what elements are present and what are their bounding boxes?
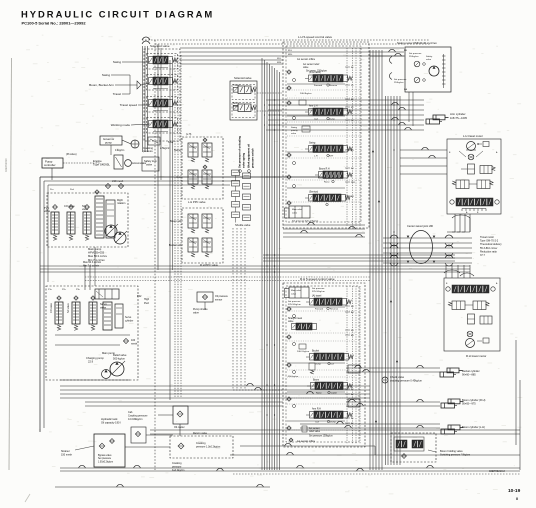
- svg-text:valve spring: valve spring: [242, 152, 246, 168]
- svg-text:Type GM-70-2-2: Type GM-70-2-2: [480, 240, 499, 243]
- svg-text:Jet sensor relief: Jet sensor relief: [303, 63, 320, 66]
- svg-text:NC valve: NC valve: [67, 303, 70, 313]
- svg-text:210kg/cm: 210kg/cm: [409, 56, 419, 58]
- svg-text:Raise: Raise: [316, 393, 322, 395]
- svg-text:240-3 kg/cm: 240-3 kg/cm: [297, 351, 309, 353]
- svg-text:MDL: MDL: [277, 62, 282, 64]
- svg-text:valve: valve: [303, 67, 309, 69]
- svg-text:115×75—1005: 115×75—1005: [450, 116, 467, 120]
- svg-text:CO valve: CO valve: [50, 302, 53, 313]
- svg-text:R.H 5-speed control valve: R.H 5-speed control valve: [300, 277, 335, 281]
- svg-text:mesh: mesh: [131, 342, 138, 345]
- svg-text:Solenoid valve: Solenoid valve: [150, 44, 170, 48]
- svg-text:Straight travel: Straight travel: [288, 317, 303, 320]
- svg-text:L.H PPC valve: L.H PPC valve: [188, 200, 206, 204]
- svg-text:Check valve: Check valve: [390, 375, 405, 379]
- svg-text:Forward: Forward: [314, 84, 323, 87]
- svg-text:02EP02030: 02EP02030: [4, 158, 8, 172]
- svg-text:R.H travel motor: R.H travel motor: [466, 354, 486, 358]
- svg-text:1.05±0.2kg/cm: 1.05±0.2kg/cm: [98, 461, 113, 463]
- svg-text:37.7: 37.7: [480, 254, 485, 257]
- svg-text:Swing: Swing: [113, 60, 122, 64]
- svg-text:(Service): (Service): [309, 191, 318, 194]
- svg-text:Swing: Swing: [102, 73, 111, 77]
- svg-text:pump: pump: [105, 142, 112, 145]
- svg-text:Boom cylinder (R.H): Boom cylinder (R.H): [462, 398, 485, 402]
- svg-text:Servo: Servo: [100, 302, 107, 306]
- svg-text:Set pressure 150kg/cm: Set pressure 150kg/cm: [309, 435, 333, 438]
- svg-text:Bucket: Bucket: [312, 350, 319, 353]
- svg-text:Safety lock: Safety lock: [144, 159, 157, 163]
- svg-text:Arm cylinder: Arm cylinder: [450, 112, 466, 116]
- svg-text:Relief valve: Relief valve: [113, 353, 127, 357]
- svg-text:Set pressure: Set pressure: [409, 52, 422, 55]
- svg-text:valve: valve: [291, 293, 297, 295]
- svg-text:Boom: Boom: [233, 103, 239, 105]
- svg-text:valve: valve: [288, 321, 294, 323]
- svg-text:Travel speed: Travel speed: [120, 103, 138, 107]
- svg-text:Dump: Dump: [330, 422, 337, 424]
- svg-text:Jet sensor orifice: Jet sensor orifice: [297, 58, 316, 61]
- svg-text:0-0.049kg/cm: 0-0.049kg/cm: [128, 418, 142, 421]
- svg-text:500 kg/cm: 500 kg/cm: [113, 357, 125, 361]
- svg-text:Min 7.1 cc/min: Min 7.1 cc/min: [83, 264, 100, 267]
- svg-text:325-10kg/cm: 325-10kg/cm: [312, 291, 325, 293]
- svg-text:Boom, Bucket Arm: Boom, Bucket Arm: [89, 83, 114, 87]
- svg-text:Travel: Travel: [113, 92, 122, 96]
- svg-text:(In E travel): (In E travel): [309, 71, 321, 74]
- svg-text:(L.H): (L.H): [186, 133, 192, 136]
- svg-text:L.H: L.H: [314, 156, 318, 158]
- svg-text:Swing motor KMF40 40.2 cc/rev: Swing motor KMF40 40.2 cc/rev: [397, 41, 437, 45]
- svg-text:Dump: Dump: [315, 364, 322, 366]
- svg-text:Bucket s/d: Bucket s/d: [169, 243, 182, 247]
- svg-text:controller: controller: [44, 163, 56, 167]
- svg-text:(A) travel: (A) travel: [312, 295, 322, 298]
- svg-text:Boom cylinder (L.H): Boom cylinder (L.H): [462, 425, 485, 429]
- svg-text:relief valve: relief valve: [309, 430, 321, 433]
- svg-text:Main pump: Main pump: [88, 247, 102, 251]
- svg-text:Jet sensor orifice: Jet sensor orifice: [297, 440, 316, 443]
- svg-text:valve: valve: [292, 212, 298, 214]
- svg-text:valve: valve: [146, 163, 153, 167]
- svg-text:Arm L.H: Arm L.H: [309, 105, 318, 108]
- svg-text:LSC mesh: LSC mesh: [112, 180, 124, 183]
- svg-text:Theoretical delivery: Theoretical delivery: [480, 243, 502, 246]
- svg-text:L.H 5-speed control valve: L.H 5-speed control valve: [298, 35, 332, 39]
- svg-text:rotation: rotation: [117, 202, 126, 205]
- svg-text:Bypass valve: Bypass valve: [98, 455, 112, 457]
- svg-text:Boom holding valve: Boom holding valve: [440, 449, 463, 453]
- svg-text:valve: valve: [426, 59, 432, 61]
- svg-text:Switching pressure * 8kg/cm: Switching pressure * 8kg/cm: [440, 454, 470, 457]
- svg-text:R.H: R.H: [329, 156, 333, 158]
- svg-text:150 mesh: 150 mesh: [61, 454, 73, 457]
- svg-text:22.9: 22.9: [88, 360, 94, 364]
- svg-text:Reduction ratio: Reduction ratio: [480, 250, 497, 253]
- svg-text:Center swivel joint x80: Center swivel joint x80: [407, 224, 434, 228]
- svg-text:95×65—975: 95×65—975: [462, 403, 476, 406]
- svg-text:Boom R.H: Boom R.H: [319, 169, 330, 171]
- svg-text:Return valve: Return valve: [193, 432, 208, 435]
- svg-text:valve: valve: [193, 311, 199, 314]
- svg-text:Set pressure: Set pressure: [394, 78, 407, 81]
- svg-text:0.9kg/cm: 0.9kg/cm: [115, 150, 124, 152]
- svg-text:210kg/cm: 210kg/cm: [394, 82, 404, 84]
- svg-text:valve: valve: [291, 133, 297, 135]
- svg-text:II: II: [516, 497, 518, 501]
- svg-text:Travel: Travel: [233, 84, 240, 87]
- svg-text:Strainer: Strainer: [61, 450, 70, 453]
- svg-text:cylinder: cylinder: [125, 319, 133, 322]
- svg-text:HYDRAULIC CIRCUIT DIAGRAM: HYDRAULIC CIRCUIT DIAGRAM: [21, 9, 214, 20]
- svg-text:Set pressure 325+10kg/cm: Set pressure 325+10kg/cm: [292, 220, 318, 223]
- svg-text:L.H travel motor: L.H travel motor: [463, 134, 483, 138]
- svg-text:Oil capacity 190 l: Oil capacity 190 l: [101, 421, 121, 425]
- svg-text:325-10kg/cm: 325-10kg/cm: [288, 304, 301, 306]
- svg-text:Boom s/d: Boom s/d: [170, 219, 182, 223]
- svg-text:10-19: 10-19: [508, 488, 521, 494]
- svg-text:HPV055+055: HPV055+055: [88, 251, 105, 255]
- svg-text:02EP09213-2: 02EP09213-2: [489, 469, 505, 473]
- svg-text:Set pressure: Set pressure: [98, 457, 112, 460]
- svg-text:R.H PPC valve: R.H PPC valve: [200, 263, 218, 267]
- svg-text:Dump: Dump: [329, 119, 336, 121]
- svg-text:valve: valve: [44, 209, 51, 213]
- svg-text:5-bar: 5-bar: [168, 141, 174, 144]
- svg-text:Charging pump: Charging pump: [86, 356, 104, 360]
- svg-text:Oil cooler: Oil cooler: [174, 426, 185, 429]
- svg-text:240-3kg/cm: 240-3kg/cm: [300, 93, 312, 95]
- svg-text:55.3-810 cc/rev: 55.3-810 cc/rev: [480, 247, 498, 250]
- svg-text:Safety: Safety: [426, 55, 433, 58]
- svg-text:lower: lower: [233, 105, 239, 108]
- svg-text:P42: P42: [137, 295, 142, 298]
- svg-text:Swing: Swing: [174, 148, 182, 152]
- svg-text:priority: priority: [291, 129, 298, 132]
- svg-text:Arm R.H: Arm R.H: [312, 408, 321, 411]
- svg-text:sensor: sensor: [215, 298, 222, 301]
- svg-text:Forward: Forward: [315, 308, 324, 311]
- svg-text:Jet sensor: Jet sensor: [309, 427, 320, 430]
- svg-text:Bucket cylinder: Bucket cylinder: [462, 369, 480, 373]
- svg-text:Set pressure: Set pressure: [312, 287, 325, 290]
- svg-text:cracking pressure 0.45kg/cm: cracking pressure 0.45kg/cm: [390, 380, 422, 383]
- svg-text:Travel motor: Travel motor: [480, 236, 494, 239]
- svg-text:(36 wires): (36 wires): [66, 153, 77, 156]
- svg-text:Hydraulic tank: Hydraulic tank: [101, 417, 118, 421]
- svg-text:Main relief: Main relief: [292, 208, 302, 211]
- svg-text:Working mode: Working mode: [111, 123, 131, 127]
- svg-text:Curl: Curl: [314, 118, 319, 121]
- svg-text:90×60—885: 90×60—885: [462, 374, 476, 377]
- svg-text:9+0.2kg/cm: 9+0.2kg/cm: [172, 469, 184, 472]
- svg-text:Pw2: Pw2: [144, 302, 149, 305]
- svg-text:High: High: [144, 298, 150, 301]
- svg-text:2-5kg/cm: 2-5kg/cm: [160, 147, 170, 150]
- svg-text:Arm: Arm: [176, 175, 181, 179]
- svg-text:Swing: Swing: [309, 143, 316, 145]
- svg-text:Boom: Boom: [313, 380, 319, 382]
- svg-text:Governor: Governor: [103, 137, 114, 141]
- svg-text:pressure switch: pressure switch: [251, 148, 255, 168]
- svg-text:PC100-5 Serial No.: 28001—2999: PC100-5 Serial No.: 28001—29992: [22, 21, 87, 26]
- svg-text:Shuttle valve: Shuttle valve: [235, 223, 251, 227]
- svg-text:Max 56.3 cc/rev: Max 56.3 cc/rev: [88, 254, 108, 258]
- svg-text:Set pressure: Set pressure: [288, 300, 301, 303]
- svg-text:Swing: Swing: [291, 127, 298, 129]
- svg-text:pressure 1.3±0.2kg/cm: pressure 1.3±0.2kg/cm: [196, 445, 220, 448]
- svg-text:Work equipment oil: Work equipment oil: [247, 144, 251, 168]
- svg-text:Set pressure of unloading: Set pressure of unloading: [238, 136, 242, 168]
- svg-text:Raise: Raise: [324, 182, 330, 184]
- svg-text:Reverse: Reverse: [329, 84, 338, 87]
- svg-text:pressure: pressure: [143, 150, 153, 153]
- svg-text:Reverse: Reverse: [330, 308, 339, 311]
- svg-text:Main relief: Main relief: [291, 289, 301, 292]
- svg-text:Solenoid valve: Solenoid valve: [234, 76, 252, 80]
